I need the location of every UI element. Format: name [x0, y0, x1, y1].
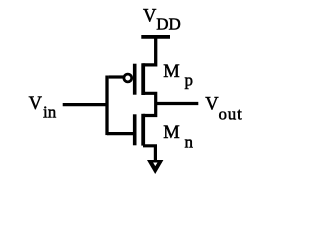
transistor Q2 NMOS gate bar — [133, 114, 137, 145]
wire VDD stem to PMOS source — [143, 37, 156, 65]
svg-text:V: V — [205, 95, 219, 115]
ground arrow — [147, 160, 163, 174]
wire NMOS source to ground — [143, 146, 155, 161]
svg-text:out: out — [219, 105, 243, 124]
svg-text:in: in — [43, 103, 57, 122]
net label Vout — [205, 95, 242, 124]
svg-text:DD: DD — [156, 15, 181, 34]
wire PMOS drain to output node — [143, 93, 156, 103]
label Mp — [163, 62, 193, 90]
wire NMOS gate — [107, 132, 134, 135]
VDD power rail — [141, 35, 170, 39]
svg-text:V: V — [143, 7, 157, 27]
svg-text:M: M — [163, 62, 179, 82]
wire output to Vout — [156, 102, 199, 105]
wire PMOS gate — [109, 75, 124, 78]
transistor Q1 PMOS gate bubble — [124, 74, 132, 82]
label Mn — [163, 123, 193, 152]
transistor Q2 NMOS channel — [141, 114, 145, 146]
transistor Q1 PMOS gate bar — [133, 64, 137, 95]
svg-text:n: n — [185, 133, 194, 152]
wire NMOS drain to output node — [143, 104, 156, 116]
svg-text:p: p — [185, 71, 194, 90]
net label Vin — [29, 94, 57, 122]
net label VDD — [143, 7, 181, 34]
transistor Q1 PMOS channel — [141, 63, 145, 95]
wire gate vertical connecting both gates — [105, 76, 108, 136]
wire Vin input — [63, 103, 107, 106]
svg-text:M: M — [163, 123, 179, 143]
svg-text:V: V — [29, 94, 43, 114]
